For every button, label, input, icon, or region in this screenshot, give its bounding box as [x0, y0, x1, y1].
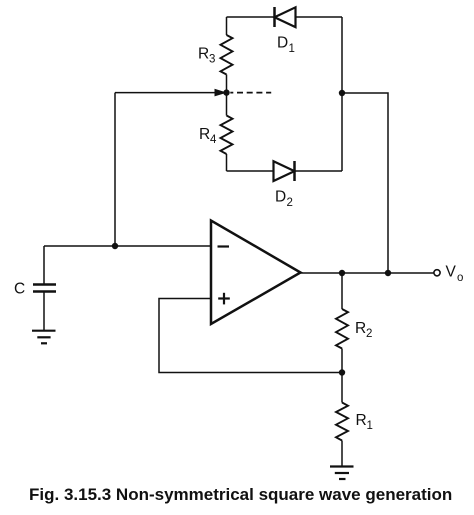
- svg-text:R: R: [355, 320, 366, 337]
- svg-text:3: 3: [209, 54, 215, 66]
- dashed wiper continuation: [230, 92, 271, 94]
- node R3/R4 junction dot: [223, 89, 229, 95]
- terminal Vo open circle: [434, 270, 440, 276]
- resistor R2: [336, 273, 348, 373]
- svg-text:R: R: [356, 412, 367, 429]
- svg-text:V: V: [446, 264, 457, 281]
- wire right loop vertical: [341, 17, 343, 171]
- label R2: [355, 320, 372, 340]
- label Vo: [446, 264, 464, 285]
- svg-text:D: D: [277, 35, 288, 52]
- node output/diode-branch junction dot: [385, 270, 391, 276]
- resistor R3: [221, 35, 233, 75]
- svg-text:o: o: [457, 272, 463, 284]
- label D2: [275, 189, 293, 210]
- resistor R1: [336, 373, 348, 467]
- wire from loop right to output vertical: [342, 93, 388, 273]
- svg-text:4: 4: [210, 134, 217, 146]
- op-amp U1: [211, 221, 301, 325]
- node inverting input junction dot: [112, 243, 118, 249]
- capacitor C: [33, 246, 56, 331]
- svg-text:D: D: [275, 189, 286, 206]
- ground below C: [32, 331, 56, 344]
- svg-text:2: 2: [287, 197, 293, 209]
- op-amp minus input symbol: [218, 245, 230, 247]
- label R4: [199, 126, 217, 146]
- svg-text:1: 1: [289, 43, 295, 55]
- wire bottom loop horizontal: [227, 170, 343, 172]
- wiper arrowhead: [215, 89, 228, 97]
- wire left branch vertical (R3/R4 column stubs): [226, 17, 228, 171]
- wire wiper feed from left column: [115, 92, 218, 94]
- diode D2: [274, 161, 295, 181]
- svg-text:2: 2: [366, 328, 372, 340]
- svg-text:Fig. 3.15.3 Non-symmetrical sq: Fig. 3.15.3 Non-symmetrical square wave …: [29, 485, 452, 504]
- svg-text:1: 1: [367, 420, 373, 432]
- resistor R4: [221, 116, 233, 155]
- wire inverting input horizontal: [44, 245, 211, 247]
- svg-text:C: C: [14, 281, 25, 298]
- node loop-right junction dot: [339, 90, 345, 96]
- label D1: [277, 35, 295, 56]
- ground below R1: [330, 467, 354, 480]
- wire output horizontal: [301, 272, 434, 274]
- node R2/R1 junction dot: [339, 369, 345, 375]
- label R1: [356, 412, 373, 432]
- op-amp plus input symbol: [218, 293, 230, 305]
- label R3: [198, 46, 215, 66]
- diode D1: [275, 7, 296, 27]
- wire top loop: top horizontal from R3 top to right vertical: [227, 16, 343, 18]
- wire non-inverting input feedback path: [159, 299, 342, 373]
- wire left feedback vertical down to inverting input: [114, 93, 116, 246]
- node output/R2 junction dot: [339, 270, 345, 276]
- svg-text:R: R: [198, 46, 209, 63]
- svg-text:R: R: [199, 126, 210, 143]
